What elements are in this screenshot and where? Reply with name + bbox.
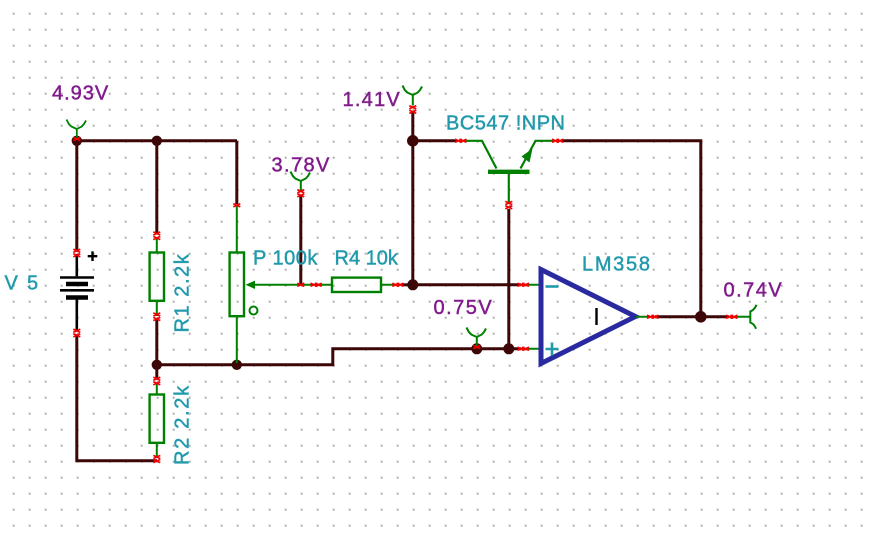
transistor Q1 BC547 [464, 141, 554, 203]
pin marks R2 top [153, 377, 160, 385]
label R4 10k [335, 248, 399, 270]
wire probe 3.78V drop to wiper [299, 195, 302, 285]
node battery-rail-probe [72, 136, 82, 146]
svg-text:3.78V: 3.78V [272, 155, 331, 177]
probe 3.78V [291, 172, 311, 192]
pin mark probe 0.75V [473, 345, 480, 348]
label 4.93V [52, 83, 109, 105]
pin marks op-amp plus [518, 347, 530, 350]
pin marks collector [455, 139, 467, 142]
svg-text:0.74V: 0.74V [724, 280, 784, 302]
op-amp U1 LM358 [525, 270, 650, 364]
pin mark probe 4.93V [73, 137, 80, 140]
wire output to probe [655, 315, 729, 318]
svg-text:R4 10k: R4 10k [335, 248, 399, 270]
pin mark wiper node [297, 283, 304, 286]
probe 0.75V [467, 328, 487, 348]
svg-text:4.93V: 4.93V [52, 83, 109, 105]
node mid rail R1/R2 [152, 360, 162, 370]
pin marks output probe [726, 315, 738, 318]
resistor R2 [150, 383, 164, 458]
wire collector feed [413, 139, 457, 142]
wire pot top drop [235, 141, 238, 204]
wire R2 top stub [155, 365, 158, 378]
pin marks R4 left [311, 283, 322, 286]
svg-text:P 100k: P 100k [253, 248, 318, 270]
pin marks battery bottom [73, 329, 80, 337]
label 3.78V [272, 155, 331, 177]
wire vertical node to minus rail [411, 141, 414, 285]
svg-text:0.75V: 0.75V [434, 297, 494, 319]
pin marks R1 bottom [153, 313, 160, 321]
label BC547 !NPN [446, 113, 566, 135]
node base/plus rail [503, 343, 514, 354]
pin marks op-amp output [647, 315, 659, 318]
resistor R4 [317, 278, 399, 292]
pin mark pot top [233, 204, 240, 207]
pin marks probe 1.41V [409, 106, 416, 114]
label LM358 [582, 254, 652, 276]
wire battery bottom return [77, 336, 157, 461]
pin marks op-amp minus [518, 283, 530, 286]
node output feedback [695, 311, 707, 323]
wire mid rail with step to plus input [157, 349, 521, 365]
svg-text:BC547 !NPN: BC547 !NPN [446, 113, 566, 135]
pin marks battery top [73, 249, 80, 257]
svg-text:R1 2.2k: R1 2.2k [172, 253, 194, 333]
wire R4 right to node [402, 283, 413, 286]
wire R1 bottom to mid rail [155, 319, 158, 365]
label V 5 [5, 273, 40, 295]
node collector/probe [407, 135, 419, 147]
svg-text:V 5: V 5 [5, 273, 40, 295]
pin marks base [505, 201, 512, 209]
wire emitter feedback to output [561, 141, 701, 317]
wire base drop to plus rail [507, 209, 510, 349]
pin marks emitter [552, 139, 564, 142]
probe 0.74V output [736, 305, 757, 329]
svg-text:R2 2.2k: R2 2.2k [172, 384, 194, 465]
probe 1.41V [403, 86, 423, 106]
label 0.74V [724, 280, 784, 302]
wire probe 1.41V stub [411, 112, 414, 141]
probe 4.93V [67, 120, 87, 140]
battery V1 [60, 251, 97, 331]
svg-text:LM358: LM358 [582, 254, 652, 276]
svg-text:1.41V: 1.41V [343, 89, 402, 111]
wire top rail from battery to pot drop [77, 139, 237, 142]
label 0.75V [434, 297, 494, 319]
label 1.41V [343, 89, 402, 111]
pin marks probe 3.78V [297, 190, 304, 197]
label P 100k [253, 248, 318, 270]
wire battery top drop [75, 141, 78, 250]
wire minus input rail [413, 283, 521, 286]
potentiometer P [230, 206, 315, 363]
node probe 0.75V [471, 343, 482, 354]
pin marks R1 top [153, 232, 160, 240]
label R2 2.2k [172, 384, 194, 465]
pin marks R2 bottom [153, 455, 160, 462]
label R1 2.2k [172, 253, 194, 333]
wire R1 top drop [155, 141, 158, 233]
resistor R1 [150, 237, 164, 316]
node mid rail pot [232, 360, 242, 370]
pin marks R4 right [392, 283, 403, 286]
node R4/minus rail [407, 279, 418, 290]
node R1 top [152, 136, 162, 146]
